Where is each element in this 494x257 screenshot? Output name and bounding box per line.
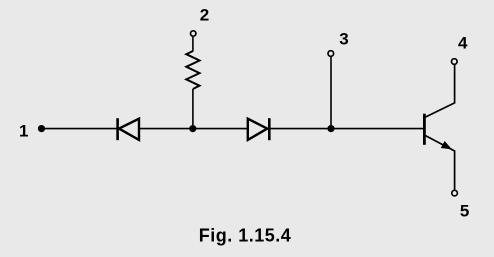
svg-text:Fig. 1.15.4: Fig. 1.15.4 bbox=[199, 226, 292, 246]
svg-text:4: 4 bbox=[458, 34, 468, 53]
svg-text:5: 5 bbox=[460, 202, 469, 221]
svg-text:3: 3 bbox=[339, 30, 348, 49]
svg-text:2: 2 bbox=[200, 6, 209, 25]
svg-text:1: 1 bbox=[19, 122, 28, 141]
